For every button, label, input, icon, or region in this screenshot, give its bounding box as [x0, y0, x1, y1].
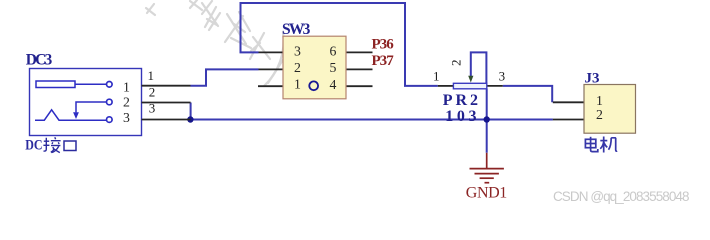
svg-text:1: 1: [123, 79, 130, 94]
SW3 pin numbers: [294, 43, 337, 91]
svg-text:6: 6: [329, 43, 336, 58]
svg-text:SW3: SW3: [282, 21, 311, 38]
svg-text:4: 4: [329, 77, 336, 92]
svg-text:2: 2: [596, 107, 603, 122]
svg-text:2: 2: [149, 84, 156, 99]
SW3 polarity circle: [309, 81, 318, 90]
wire: SW3 pin3 top loop to PR2 pin1: [241, 3, 438, 86]
svg-text:3: 3: [149, 100, 156, 115]
svg-text:2: 2: [123, 95, 130, 110]
wire: DC3 pin2 down to ground net: [190, 103, 192, 120]
svg-text:3: 3: [294, 43, 301, 58]
switch SW3 body: [283, 36, 346, 99]
J3 pin numbers: [596, 93, 603, 122]
DC3 pin numbers inside: [123, 79, 130, 125]
connector J3 pin stubs: [553, 102, 584, 119]
watermark stamp strokes: [146, 0, 288, 86]
DC3 zigzag contact: [35, 110, 107, 120]
svg-text:1: 1: [147, 68, 154, 83]
PR2 pin stubs: [438, 85, 503, 87]
svg-text:P36: P36: [372, 36, 395, 52]
switch SW3 pin stubs: [258, 52, 373, 86]
svg-text:CSDN @qq_2083558048: CSDN @qq_2083558048: [553, 189, 690, 204]
svg-text:P37: P37: [372, 53, 395, 69]
ground GND1 symbol: [470, 153, 504, 183]
svg-text:J3: J3: [585, 71, 600, 87]
svg-text:PR2: PR2: [443, 92, 478, 109]
DC3 terminal circles: [107, 82, 113, 123]
wire: ground net horizontal: [191, 119, 553, 121]
svg-text:5: 5: [329, 60, 336, 75]
svg-text:2: 2: [294, 60, 301, 75]
connector J3 body: [584, 85, 636, 134]
potentiometer PR2 body: [453, 83, 486, 89]
wire: DC3 pin1 to SW3 pin2: [191, 69, 259, 85]
wire: PR2 pin3 to J3 pin1: [503, 86, 552, 102]
connector DC3 body: [30, 69, 142, 136]
svg-text:1: 1: [294, 77, 301, 92]
node: junction ground net under PR2: [484, 116, 490, 122]
svg-text:2: 2: [448, 60, 463, 67]
svg-text:1: 1: [596, 93, 603, 108]
label 电机: [585, 137, 617, 153]
DC3 pin stubs: [142, 86, 191, 120]
svg-text:3: 3: [123, 110, 130, 125]
potentiometer PR2 wiper loop: [468, 52, 486, 84]
label DC接口: [25, 137, 76, 153]
wire: PR2 pin3 down to ground junction: [486, 89, 488, 153]
svg-text:1: 1: [433, 69, 440, 84]
svg-text:DC3: DC3: [26, 52, 53, 69]
svg-text:103: 103: [445, 108, 476, 125]
DC3 barrel symbol: [36, 81, 106, 88]
svg-text:GND1: GND1: [466, 185, 508, 202]
DC3 pin2 switch arm with arrow: [73, 102, 106, 119]
svg-text:3: 3: [499, 69, 506, 84]
svg-text:DC: DC: [25, 138, 42, 154]
node: junction DC3 pin2/pin3: [187, 116, 193, 122]
